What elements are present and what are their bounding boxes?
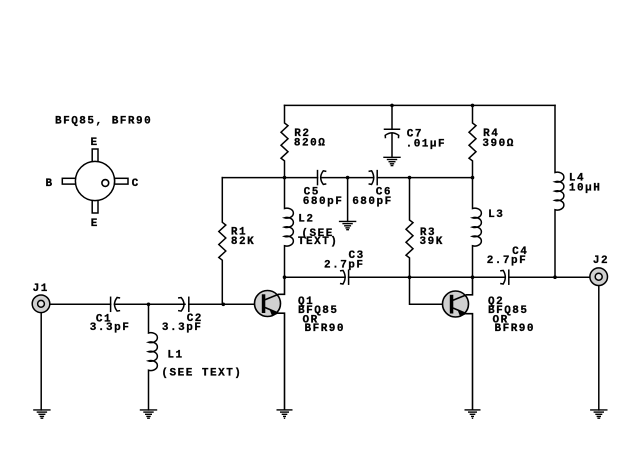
wire J2 ground stem xyxy=(598,285,600,410)
svg-text:J2: J2 xyxy=(593,255,609,267)
resistor R3 xyxy=(406,178,413,278)
capacitor C4 xyxy=(501,270,509,284)
svg-text:390Ω: 390Ω xyxy=(482,138,514,150)
svg-text:BFQ85, BFR90: BFQ85, BFR90 xyxy=(55,115,152,127)
node C5/C6 mid xyxy=(346,176,350,180)
node R1 bottom xyxy=(222,303,226,307)
wire input line J1 to C1 xyxy=(44,303,111,305)
node Q2 collector xyxy=(471,275,475,279)
node R3 bottom xyxy=(408,275,412,279)
node R3 top xyxy=(408,176,412,180)
svg-text:39K: 39K xyxy=(420,236,444,248)
svg-text:BFR90: BFR90 xyxy=(495,323,536,335)
svg-text:680pF: 680pF xyxy=(352,196,393,208)
wire top rail A xyxy=(285,104,556,106)
capacitor C3 xyxy=(341,270,349,284)
ground (J2) xyxy=(591,410,607,418)
wire line C: C4 to J2 xyxy=(509,276,596,278)
wire line C: C3 to L3/Q2 node xyxy=(349,276,506,278)
svg-text:E: E xyxy=(91,137,99,149)
ground (J1) xyxy=(34,410,50,418)
ground (L1) xyxy=(141,410,157,418)
svg-text:J1: J1 xyxy=(33,283,49,295)
wire C2 to R1 node to Q1 base xyxy=(189,303,262,305)
svg-text:3.3pF: 3.3pF xyxy=(162,322,203,334)
svg-text:3.3pF: 3.3pF xyxy=(90,322,131,334)
svg-text:2.7pF: 2.7pF xyxy=(487,255,528,267)
svg-text:E: E xyxy=(91,218,99,230)
svg-text:TEXT): TEXT) xyxy=(298,236,339,248)
ground (C5/C6 mid) xyxy=(340,221,356,229)
resistor R1 xyxy=(219,178,226,305)
wire rail B right segment xyxy=(377,177,472,179)
wire C5/C6 midpoint ground stem xyxy=(347,178,349,222)
inductor L1 xyxy=(149,304,158,410)
svg-text:(SEE TEXT): (SEE TEXT) xyxy=(161,368,242,380)
ground (C7) xyxy=(384,157,400,165)
ground (Q2 emitter) xyxy=(465,410,481,418)
transistor Q1 xyxy=(255,277,285,410)
connector J1 xyxy=(32,295,50,313)
node L1 top xyxy=(147,303,151,307)
package pinout diagram xyxy=(62,149,128,213)
svg-text:B: B xyxy=(46,178,54,190)
svg-text:82K: 82K xyxy=(231,236,255,248)
node R2/L2 xyxy=(283,176,287,180)
ground (Q1 emitter) xyxy=(277,410,293,418)
capacitor C7 xyxy=(385,105,400,157)
connector J2 xyxy=(590,268,608,286)
wire J1 ground stem xyxy=(40,312,42,410)
svg-text:BFR90: BFR90 xyxy=(305,323,346,335)
node C7 top xyxy=(390,104,394,108)
node R4/L3 xyxy=(471,176,475,180)
capacitor C6 xyxy=(369,171,377,185)
svg-text:820Ω: 820Ω xyxy=(294,137,326,149)
wire Q2 base from R3 node xyxy=(410,277,451,304)
svg-text:C: C xyxy=(132,178,140,190)
wire C1 to C2 xyxy=(115,303,186,305)
resistor R2 xyxy=(281,105,288,177)
wire line C: Q1 collector node to C3 xyxy=(285,276,346,278)
svg-text:2.7pF: 2.7pF xyxy=(324,259,365,271)
inductor L3 xyxy=(473,178,482,278)
node R4 top xyxy=(471,104,475,108)
transistor Q2 xyxy=(443,277,473,410)
capacitor C1 xyxy=(111,297,120,311)
svg-text:L2: L2 xyxy=(298,214,314,226)
node Q1 collector xyxy=(283,275,287,279)
resistor R4 xyxy=(469,105,476,177)
wire rail B left segment xyxy=(222,177,317,179)
svg-text:L1: L1 xyxy=(167,350,183,362)
node L4 bottom xyxy=(553,275,557,279)
svg-text:10µH: 10µH xyxy=(569,182,601,194)
svg-text:L3: L3 xyxy=(488,209,504,221)
capacitor C5 xyxy=(318,171,326,185)
wire rail B mid segment xyxy=(321,177,374,179)
inductor L2 xyxy=(285,178,294,278)
svg-text:.01µF: .01µF xyxy=(406,138,447,150)
inductor L4 xyxy=(555,105,564,277)
svg-text:680pF: 680pF xyxy=(303,196,344,208)
capacitor C2 xyxy=(179,297,189,311)
